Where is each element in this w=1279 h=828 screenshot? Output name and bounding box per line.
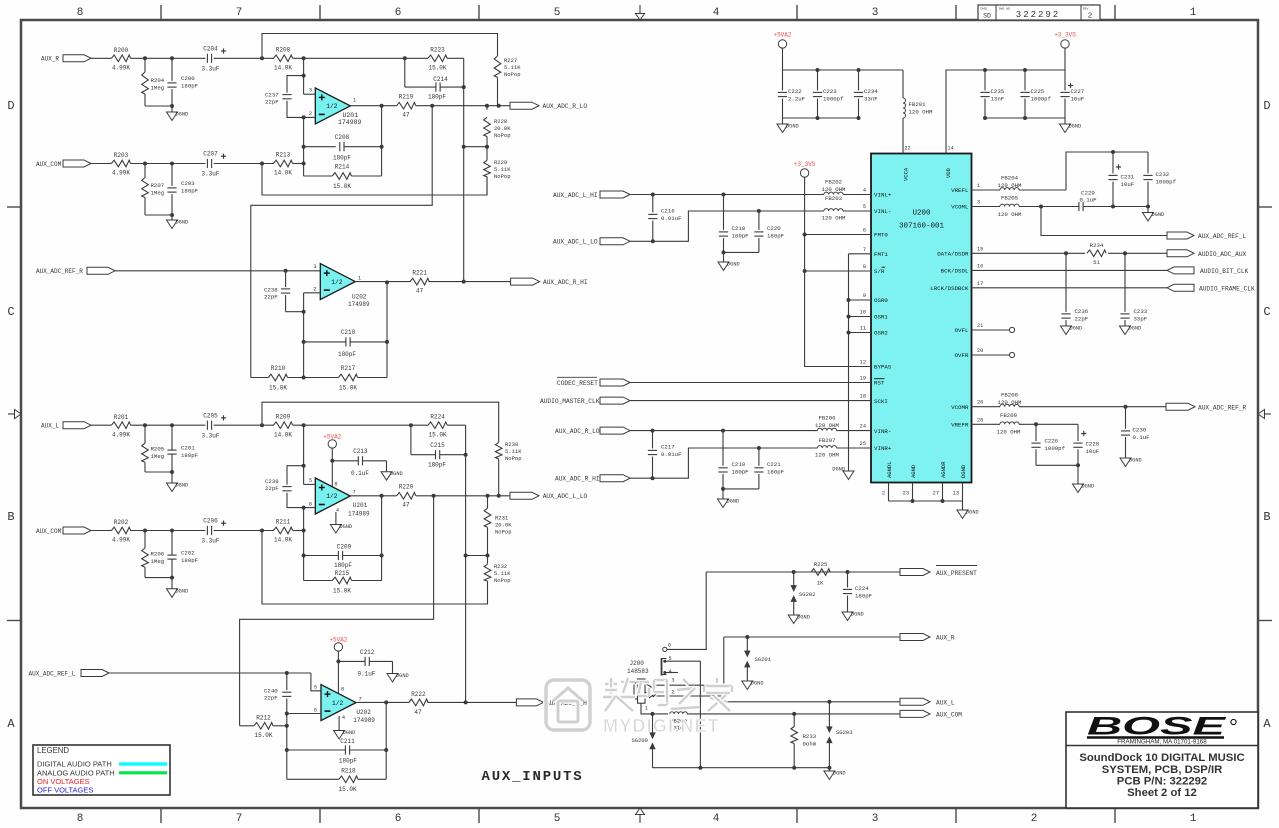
svg-text:3: 3 [872,7,879,19]
svg-text:7: 7 [359,697,362,703]
svg-text:13nF: 13nF [991,96,1005,103]
svg-text:3: 3 [671,678,674,684]
svg-text:C233: C233 [1134,308,1148,315]
svg-text:25: 25 [860,441,866,447]
svg-text:J200: J200 [630,660,645,667]
svg-text:C: C [1263,305,1270,319]
svg-text:DGND: DGND [1070,326,1083,332]
svg-text:7: 7 [236,7,243,19]
svg-text:C224: C224 [855,585,869,592]
svg-text:C211: C211 [340,738,355,745]
svg-text:R222: R222 [411,691,426,698]
svg-text:AUX_ADC_REF_L: AUX_ADC_REF_L [29,670,76,677]
svg-text:15.0K: 15.0K [333,588,351,595]
svg-text:5.11K: 5.11K [494,570,511,577]
svg-text:DGND: DGND [343,730,356,736]
svg-text:C205: C205 [203,412,218,419]
svg-text:47: 47 [402,502,410,509]
svg-text:120 OHM: 120 OHM [822,186,846,193]
svg-text:R203: R203 [114,152,129,159]
svg-text:8: 8 [77,7,84,19]
svg-text:8: 8 [863,264,866,270]
svg-text:15.0K: 15.0K [339,786,357,793]
svg-text:C203: C203 [181,180,195,187]
svg-text:6: 6 [395,813,402,825]
svg-text:AUX_ADC_L_LO: AUX_ADC_L_LO [553,239,598,246]
svg-text:120 OHM: 120 OHM [822,215,846,222]
svg-text:AUX_PRESENT: AUX_PRESENT [936,570,977,577]
svg-text:3: 3 [309,88,312,94]
svg-text:ANALOG AUDIO PATH: ANALOG AUDIO PATH [37,768,115,777]
svg-text:180pF: 180pF [732,469,750,476]
svg-text:6: 6 [863,228,866,234]
svg-text:3.3uF: 3.3uF [201,66,219,73]
svg-text:B: B [7,510,14,524]
svg-text:180pF: 180pF [767,233,785,240]
svg-text:5.11K: 5.11K [494,166,511,173]
svg-text:DGND: DGND [176,588,189,594]
svg-text:1/2: 1/2 [326,493,337,500]
svg-text:AUDIO_BIT_CLK: AUDIO_BIT_CLK [1200,268,1249,275]
svg-text:FB208: FB208 [1001,392,1019,399]
svg-text:8: 8 [77,813,84,825]
svg-text:DGND: DGND [396,673,409,679]
svg-text:VREFL: VREFL [951,187,969,194]
svg-text:22pF: 22pF [264,294,278,301]
svg-text:22pF: 22pF [265,99,279,106]
svg-text:5.11K: 5.11K [505,448,522,455]
svg-text:AUX_ADC_R_LO: AUX_ADC_R_LO [555,428,600,435]
svg-text:VINR+: VINR+ [874,445,892,452]
svg-text:14.0K: 14.0K [274,170,292,177]
svg-text:CODEC_RESET: CODEC_RESET [557,380,598,387]
svg-text:47: 47 [416,288,424,295]
svg-text:12: 12 [860,360,866,366]
svg-text:VINR-: VINR- [874,428,891,435]
svg-text:C209: C209 [337,544,352,551]
svg-text:NoPop: NoPop [494,132,511,139]
svg-text:120 OHM: 120 OHM [998,182,1022,189]
svg-text:4: 4 [713,813,720,825]
svg-text:NoPop: NoPop [504,71,521,78]
svg-text:OSR1: OSR1 [874,314,888,321]
svg-text:NoPop: NoPop [494,173,511,180]
svg-text:C236: C236 [1075,308,1089,315]
svg-text:C219: C219 [732,461,746,468]
svg-text:C235: C235 [991,88,1005,95]
svg-text:120 OHM: 120 OHM [909,109,933,116]
svg-text:4.99K: 4.99K [112,537,130,544]
svg-text:DGND: DGND [339,524,352,530]
svg-text:AUX_ADC_REF_L: AUX_ADC_REF_L [1198,233,1247,240]
svg-text:180pF: 180pF [855,593,873,600]
svg-text:VREFR: VREFR [951,422,969,429]
svg-text:PCB P/N: 322292: PCB P/N: 322292 [1117,776,1207,788]
svg-text:DGND: DGND [727,499,740,505]
svg-text:S/R: S/R [874,268,885,275]
svg-text:SYSTEM, PCB, DSP/IR: SYSTEM, PCB, DSP/IR [1102,764,1223,776]
svg-text:4: 4 [863,188,866,194]
svg-text:VCOML: VCOML [951,204,969,211]
svg-text:10uF: 10uF [1121,181,1135,188]
svg-text:SD: SD [983,13,991,20]
svg-text:R232: R232 [494,563,507,570]
svg-text:DGND: DGND [176,483,189,489]
svg-text:15.0K: 15.0K [254,732,272,739]
svg-text:180pF: 180pF [339,758,357,765]
svg-text:AUX_L: AUX_L [41,423,59,430]
svg-text:LEGEND: LEGEND [37,746,69,755]
svg-text:C229: C229 [1081,190,1095,197]
svg-text:DGND: DGND [851,612,864,618]
svg-text:33pF: 33pF [1134,316,1148,323]
svg-text:AUX_ADC_L_HI: AUX_ADC_L_HI [553,192,598,199]
svg-text:C212: C212 [360,649,375,656]
svg-text:AUX_ADC_R_HI: AUX_ADC_R_HI [543,279,588,286]
svg-text:OFF VOLTAGES: OFF VOLTAGES [37,786,93,795]
svg-text:8: 8 [334,482,337,488]
svg-text:DGND: DGND [960,464,967,478]
svg-text:24: 24 [860,424,866,430]
svg-text:R208: R208 [276,47,291,54]
svg-text:3.3uF: 3.3uF [201,538,219,545]
svg-text:1Meg: 1Meg [151,558,165,565]
svg-text:0.1uF: 0.1uF [357,670,375,677]
svg-text:FB205: FB205 [1001,195,1019,202]
svg-text:C202: C202 [181,550,195,557]
svg-text:C237: C237 [265,92,279,99]
svg-text:DGND: DGND [966,510,979,516]
svg-text:U202: U202 [352,294,367,301]
svg-text:120 OHM: 120 OHM [998,399,1022,406]
svg-text:8: 8 [341,687,344,693]
svg-text:VCCA: VCCA [903,167,910,181]
svg-text:51: 51 [1093,259,1100,266]
svg-text:OVFL: OVFL [955,327,969,334]
svg-text:U202: U202 [356,709,371,716]
svg-text:1: 1 [1190,7,1197,19]
svg-text:C240: C240 [264,688,278,695]
svg-text:26: 26 [977,400,983,406]
svg-text:120 OHM: 120 OHM [815,422,839,429]
svg-text:1Meg: 1Meg [151,190,165,197]
svg-text:VDD: VDD [945,167,952,178]
svg-text:14: 14 [947,146,953,152]
svg-text:FB204: FB204 [1001,175,1019,182]
svg-text:1K: 1K [817,580,824,587]
svg-text:C234: C234 [864,88,878,95]
svg-text:A: A [7,717,15,731]
svg-text:6: 6 [314,707,317,713]
svg-text:1000pf: 1000pf [1156,179,1177,186]
svg-text:FB206: FB206 [818,415,836,422]
svg-text:R215: R215 [335,570,350,577]
svg-text:SG202: SG202 [799,591,816,598]
svg-text:NoPop: NoPop [505,455,522,462]
svg-text:R224: R224 [430,413,445,420]
svg-text:10uF: 10uF [1086,448,1100,455]
svg-text:C239: C239 [265,478,279,485]
svg-text:REV: REV [1083,8,1089,11]
svg-text:10uF: 10uF [1071,96,1085,103]
svg-text:2: 2 [671,690,674,696]
svg-text:B: B [1263,510,1270,524]
svg-text:SG201: SG201 [755,656,772,663]
svg-text:47: 47 [414,709,422,716]
svg-text:SG200: SG200 [631,737,648,744]
svg-text:R202: R202 [114,519,129,526]
svg-text:R234: R234 [1090,242,1104,249]
svg-text:A: A [1263,717,1271,731]
svg-text:RST: RST [874,380,885,387]
svg-text:1Meg: 1Meg [151,85,165,92]
svg-text:22pF: 22pF [265,485,279,492]
svg-text:AUDIO_FRAME_CLK: AUDIO_FRAME_CLK [1199,286,1255,293]
svg-text:4.99K: 4.99K [112,170,130,177]
svg-text:5.11K: 5.11K [504,64,521,71]
svg-text:180pF: 180pF [181,83,199,90]
svg-text:1000pf: 1000pf [1045,445,1066,452]
svg-text:13: 13 [953,491,959,497]
svg-text:AGNDR: AGNDR [940,461,947,478]
svg-text:5: 5 [863,204,866,210]
svg-text:15.0K: 15.0K [269,385,287,392]
svg-text:R201: R201 [114,414,129,421]
svg-text:20: 20 [977,348,983,354]
svg-text:14.0K: 14.0K [274,65,292,72]
svg-text:R200: R200 [114,47,129,54]
svg-text:120 OHM: 120 OHM [997,429,1021,436]
svg-text:15.0K: 15.0K [339,385,357,392]
svg-text:CAGE: CAGE [980,8,987,11]
svg-text:1/2: 1/2 [326,103,337,110]
svg-text:180pF: 180pF [181,452,199,459]
svg-text:AGND: AGND [910,464,917,478]
svg-text:180pF: 180pF [338,351,356,358]
svg-text:R230: R230 [505,441,518,448]
svg-text:C228: C228 [1086,441,1100,448]
svg-text:4: 4 [713,7,720,19]
svg-text:0.1uF: 0.1uF [1079,197,1097,204]
svg-text:+5VA2: +5VA2 [773,32,791,39]
svg-text:180pF: 180pF [181,557,199,564]
svg-text:AUX_L: AUX_L [936,699,955,706]
svg-text:C200: C200 [181,75,195,82]
svg-text:174989: 174989 [338,119,362,126]
svg-text:6: 6 [668,643,671,649]
svg-text:C226: C226 [1045,438,1059,445]
svg-text:180pF: 180pF [732,233,750,240]
svg-text:15.0K: 15.0K [429,431,447,438]
svg-text:FB203: FB203 [825,195,843,202]
svg-text:180pF: 180pF [428,462,446,469]
svg-text:2: 2 [309,111,312,117]
svg-text:1: 1 [645,706,648,712]
svg-text:3: 3 [313,264,316,270]
svg-text:OSR2: OSR2 [874,330,888,337]
svg-text:AUDIO_MASTER_CLK: AUDIO_MASTER_CLK [540,398,600,405]
svg-text:1000pf: 1000pf [823,96,844,103]
svg-text:SCKI: SCKI [874,398,888,405]
svg-text:14.0K: 14.0K [274,537,292,544]
svg-text:NoPop: NoPop [494,577,511,584]
svg-text:FB209: FB209 [1000,412,1018,419]
svg-text:U200: U200 [912,210,931,218]
svg-text:R219: R219 [399,94,414,101]
svg-text:27: 27 [933,491,939,497]
svg-text:R225: R225 [814,561,828,568]
svg-text:AUX_COM: AUX_COM [36,528,62,535]
svg-text:2: 2 [1088,13,1093,21]
svg-text:0.1uF: 0.1uF [351,470,369,477]
svg-text:C210: C210 [341,329,356,336]
svg-text:C207: C207 [203,151,218,158]
svg-text:U201: U201 [343,112,359,119]
svg-text:16: 16 [977,263,983,269]
svg-text:5: 5 [309,478,312,484]
svg-text:6: 6 [395,7,402,19]
svg-text:C232: C232 [1156,171,1170,178]
svg-text:180pF: 180pF [334,562,352,569]
svg-text:307160-001: 307160-001 [899,223,945,231]
svg-text:180pF: 180pF [181,188,199,195]
svg-text:C: C [7,305,14,319]
svg-text:6: 6 [309,501,312,507]
svg-text:D: D [7,99,14,113]
svg-text:3.3uF: 3.3uF [201,171,219,178]
svg-text:5: 5 [554,813,561,825]
svg-text:20.0K: 20.0K [494,125,511,132]
svg-text:21: 21 [977,323,983,329]
svg-text:C223: C223 [823,88,837,95]
svg-text:LRCK/DSDBCK: LRCK/DSDBCK [930,285,969,292]
svg-text:0.1uF: 0.1uF [1133,434,1151,441]
svg-text:Sheet 2 of 12: Sheet 2 of 12 [1127,787,1197,799]
svg-text:C221: C221 [767,461,781,468]
svg-text:DGND: DGND [1129,458,1142,464]
svg-text:22pF: 22pF [264,695,278,702]
svg-text:VCOMR: VCOMR [951,404,969,411]
svg-text:11: 11 [860,326,866,332]
svg-text:DGND: DGND [1152,212,1165,218]
svg-text:R207: R207 [151,182,165,189]
svg-text:OSR0: OSR0 [874,297,888,304]
svg-text:+3_3VS: +3_3VS [1054,32,1076,39]
svg-text:DGND: DGND [176,220,189,226]
svg-text:DIGITAL AUDIO PATH: DIGITAL AUDIO PATH [37,760,112,769]
svg-text:R229: R229 [494,159,507,166]
svg-text:15.0K: 15.0K [333,183,351,190]
svg-text:C217: C217 [661,444,675,451]
svg-text:C225: C225 [1031,88,1045,95]
svg-text:180pF: 180pF [333,155,351,162]
svg-text:AUX_R: AUX_R [936,635,955,642]
svg-text:2: 2 [313,287,316,293]
svg-text:R214: R214 [335,164,350,171]
svg-text:R211: R211 [276,519,291,526]
svg-text:33nF: 33nF [864,96,878,103]
svg-text:DGND: DGND [1069,124,1082,130]
svg-text:DGND: DGND [832,467,845,473]
svg-text:3.3uF: 3.3uF [201,432,219,439]
svg-text:2: 2 [882,491,885,497]
svg-text:47: 47 [402,112,410,119]
svg-text:120 OHM: 120 OHM [815,452,839,459]
svg-text:FB202: FB202 [825,179,843,186]
svg-text:0.01uF: 0.01uF [661,451,682,458]
svg-text:19: 19 [860,376,866,382]
svg-text:BYPAS: BYPAS [874,364,892,371]
svg-text:R233: R233 [803,733,817,740]
svg-text:NoPop: NoPop [495,529,512,536]
svg-text:22pF: 22pF [1075,316,1089,323]
svg-text:120 OHM: 120 OHM [998,211,1022,218]
svg-text:14.0K: 14.0K [274,431,292,438]
svg-text:10: 10 [860,310,866,316]
svg-text:1: 1 [977,183,980,189]
svg-text:174989: 174989 [353,717,375,724]
svg-text:C214: C214 [433,76,448,83]
svg-text:R217: R217 [341,365,356,372]
svg-text:1: 1 [1190,813,1197,825]
svg-text:7: 7 [863,247,866,253]
svg-text:AUX_ADC_REF_R: AUX_ADC_REF_R [1198,404,1247,411]
svg-text:DGND: DGND [1129,326,1142,332]
svg-text:C208: C208 [335,134,350,141]
svg-text:3: 3 [872,813,879,825]
svg-text:4.99K: 4.99K [112,65,130,72]
svg-text:R204: R204 [151,77,165,84]
svg-text:C215: C215 [430,442,445,449]
svg-text:R205: R205 [151,446,165,453]
svg-text:AGNDL: AGNDL [886,461,893,478]
svg-text:DGND: DGND [390,471,403,477]
svg-text:D: D [1263,99,1270,113]
svg-text:1000pf: 1000pf [1031,96,1052,103]
svg-text:9: 9 [863,293,866,299]
svg-text:322292: 322292 [1016,10,1060,20]
svg-text:7: 7 [353,490,356,496]
svg-text:C216: C216 [661,208,675,215]
svg-text:AUX_ADC_REF_R: AUX_ADC_REF_R [36,268,83,275]
svg-text:+3_3VS: +3_3VS [794,161,816,168]
svg-text:2: 2 [1031,813,1038,825]
svg-text:28: 28 [977,417,983,423]
svg-text:R210: R210 [271,365,286,372]
svg-text:180pF: 180pF [428,94,446,101]
svg-text:5: 5 [554,7,561,19]
svg-text:DGND: DGND [833,771,846,777]
svg-text:DGND: DGND [1082,484,1095,490]
svg-text:174989: 174989 [348,301,370,308]
svg-text:DGND: DGND [727,262,740,268]
svg-text:VINL+: VINL+ [874,192,892,199]
svg-text:FB207: FB207 [818,437,835,444]
svg-text:R227: R227 [504,57,517,64]
svg-text:1/2: 1/2 [331,279,342,286]
svg-text:4.99K: 4.99K [112,431,130,438]
svg-text:5: 5 [314,684,317,690]
svg-text:20.0K: 20.0K [495,522,512,529]
svg-text:C206: C206 [203,518,218,525]
svg-text:2.2uF: 2.2uF [788,96,806,103]
svg-text:18: 18 [860,394,866,400]
svg-text:AUX_ADC_L_LO: AUX_ADC_L_LO [543,493,588,500]
svg-text:FB201: FB201 [909,101,927,108]
svg-text:4: 4 [342,715,345,721]
svg-text:AUX_ADC_R_HI: AUX_ADC_R_HI [555,476,600,483]
svg-text:AUX_ADC_R_LO: AUX_ADC_R_LO [543,103,588,110]
